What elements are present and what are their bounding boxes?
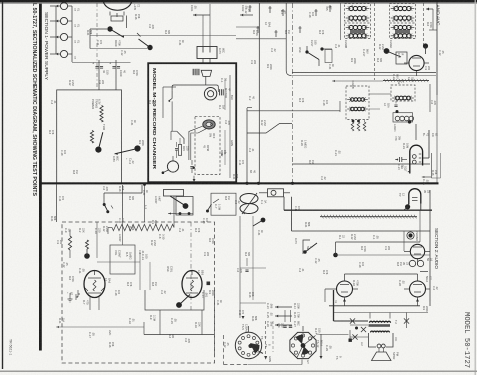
audio output tube V2 [410, 244, 424, 258]
wire b+ vertical riser [246, 108, 248, 183]
label socket X2 [316, 340, 320, 348]
wire jog to filter [247, 107, 252, 109]
capacitor C-30 [245, 269, 248, 271]
label agc cluster [149, 315, 153, 320]
rectifier pilot circle V100d [60, 50, 67, 57]
wire pilot bus [71, 6, 73, 62]
label bottom middle [256, 352, 260, 356]
ac interlock plug P100 [197, 47, 217, 59]
section 3 label fragment: and avc [435, 5, 440, 26]
wire gang to socket verticals [239, 216, 241, 318]
page footer model 50-1727 [462, 312, 470, 368]
rf amp labels row [64, 228, 68, 233]
power switch SW100 [107, 26, 112, 31]
wire tone network [350, 324, 368, 326]
grid dot V1B [176, 302, 182, 308]
detector diode arrow [427, 8, 429, 11]
audio driver tube V3 [337, 281, 353, 297]
plate dot V200 [423, 43, 428, 48]
output tube V4 [410, 281, 426, 297]
wire ac line arrows [193, 14, 210, 16]
1st IF shield box [396, 52, 407, 64]
wire tuner internals [122, 218, 124, 245]
wire output bus 2 [334, 312, 428, 314]
ground symbols bottom left [69, 293, 71, 299]
tuning gang capacitor C1A [240, 194, 258, 204]
wire screen bus [292, 163, 430, 165]
changer motor switch SW150 [167, 161, 178, 172]
wire avc return [56, 326, 144, 328]
wire to audio tube [415, 124, 417, 140]
label V1B [166, 266, 170, 272]
dashed extension to sockets [214, 290, 216, 355]
label 12SQ7 [400, 166, 404, 169]
output transformer T2 primary [370, 321, 391, 323]
muting switch SW3 [103, 193, 105, 204]
oscillator coil L202B adjustment circles [395, 116, 400, 121]
screen bypass square [207, 282, 211, 286]
wire avc bus 2 [292, 72, 436, 74]
label T2 [394, 320, 398, 324]
socket box under V101 [111, 16, 123, 21]
tone switch SW4 [207, 204, 212, 212]
wire plug leads to changer [202, 59, 204, 64]
junction dots on divider [245, 182, 248, 185]
record changer title [151, 68, 157, 170]
changer capacitor C151 [175, 148, 178, 150]
tone capacitor X marks [350, 318, 355, 323]
wire long horizontal feed [90, 35, 236, 37]
tuning gang capacitor C1B [240, 204, 258, 214]
band switch SW200 [306, 46, 308, 52]
label socket X1 [241, 324, 245, 330]
wire output stage heavy [333, 290, 335, 321]
section 2 label: audio [434, 228, 439, 270]
grid cap dot V200 [384, 48, 390, 54]
wire T2 to bus [369, 313, 371, 319]
socket X2 stem [302, 326, 304, 331]
capacitor C220 grid coupling [395, 159, 398, 161]
wire IF strip verticals [374, 3, 376, 80]
wire below dashed box [193, 176, 195, 180]
switch SW102 [134, 145, 140, 151]
wire speaker leads [378, 348, 380, 353]
wire jog 45deg [247, 124, 292, 134]
phono crystal cartridge [201, 70, 211, 76]
misc annotation specks [244, 8, 247, 14]
transformer T100 secondary [90, 131, 93, 144]
grid cap dot V1 [84, 253, 90, 259]
label speaker [392, 352, 396, 359]
loop antenna winding [112, 224, 174, 230]
pickup coil (hatched oval) [203, 120, 215, 129]
power selector switch SW2 [303, 240, 310, 254]
label fuse [260, 200, 264, 205]
wire ac line vertical [202, 15, 204, 47]
pilot lamp circles [409, 260, 415, 266]
phono motor M100 [204, 88, 216, 100]
tube V101 envelope (cropped by page top) [104, 2, 132, 10]
grid resistor R3 [68, 236, 71, 250]
label loop [118, 234, 122, 242]
top strip tick stubs [249, 5, 251, 12]
page border top rule [0, 0, 477, 3]
wire vertical feeds above tuner box [56, 184, 58, 222]
filter capacitor C100 group [98, 60, 100, 90]
fuse interlock F1 [268, 189, 284, 197]
switch SW101 on transformer [95, 147, 101, 153]
wire pilot common vertical [55, 6, 57, 54]
hatched avc bus segment [383, 80, 429, 82]
oscillator pointer [170, 196, 185, 205]
wire mains heavy [284, 209, 432, 211]
rectifier tube V202 dome below divider [409, 189, 421, 205]
black terminal blob [349, 339, 352, 342]
tube socket X1 (bottom view) [235, 332, 261, 358]
speaker LS1 cone [372, 352, 392, 361]
label V201 values [402, 143, 406, 149]
label R100 [114, 40, 118, 47]
wire dashdot mixer column [190, 222, 192, 310]
converter tube V1B (oval) [182, 271, 202, 298]
rectifier pilot circle V100c [60, 33, 67, 40]
label cluster 117V line [190, 5, 194, 12]
socket X2 pointer lines [303, 336, 316, 346]
label 117V [294, 238, 298, 244]
changer capacitor C152 [190, 166, 193, 168]
cathode arrows [343, 299, 346, 302]
drawing number TR-5621-1 [8, 339, 12, 355]
converter tube V200 [409, 55, 424, 70]
wire plate feed [429, 29, 437, 31]
crystal element stripes [192, 69, 194, 75]
wire changer internal [163, 86, 176, 88]
transformer T100 primary winding [100, 106, 103, 123]
label V200 pins [392, 74, 396, 80]
wire section2 right verticals [429, 190, 431, 306]
IF transformer T201 [390, 4, 416, 22]
rectifier pilot circle V100a [60, 2, 67, 9]
title text: model 50-1727 sectionalized schematic diagram [31, 3, 37, 196]
tube shield box V1B [145, 290, 204, 310]
interstage ladder wires [139, 252, 141, 290]
page border left rule [2, 2, 3, 369]
audio coupling labels [394, 136, 398, 141]
wire filament bus [292, 230, 431, 232]
power transformer box T100 [57, 90, 122, 183]
dashed test point leaders [265, 321, 267, 356]
wire top interconnect [104, 192, 142, 194]
cathode marks [66, 292, 69, 294]
wire switch out [333, 253, 338, 258]
wire avc bus [291, 75, 436, 77]
rectifier pilot circle V100b [60, 17, 67, 24]
IF transformer T203 with slug [390, 23, 416, 39]
phono jack J1 [408, 233, 412, 237]
changer resistor R151 [178, 145, 181, 156]
wire V1 pins down [89, 297, 91, 310]
oscillator sub box [176, 197, 193, 216]
wire V101 anode [126, 16, 128, 29]
bottom clutter labels [314, 328, 318, 334]
wire agc line [144, 334, 214, 336]
gang capacitor shaft arrow [242, 193, 257, 214]
wire heater dashdot [96, 3, 98, 89]
wire plate feed V201 [428, 130, 430, 158]
label on-off switch [209, 133, 213, 137]
grid resistors triple [351, 122, 354, 131]
wire switch feed [90, 28, 107, 30]
wire left tone lead [349, 330, 351, 340]
capacitor osc [394, 104, 397, 106]
T2 secondary loops [377, 344, 381, 348]
IF transformer T204 (second pair) [346, 86, 369, 120]
wire screen right box [430, 153, 432, 178]
title separator heavy vertical bar [39, 4, 42, 351]
label V4 [425, 276, 429, 282]
tube socket X2 (octal, bottom view) [290, 332, 316, 358]
IF transformer T202 with slug [345, 23, 371, 39]
IF transformer T205 [391, 85, 415, 101]
1st audio tube V201 (dome envelope) [410, 145, 423, 173]
IF transformer T200 (dashed can, two windings) [345, 4, 371, 22]
wire tube tops [345, 273, 418, 275]
label V2 [426, 258, 430, 261]
tuner dashed alignment box [62, 222, 215, 363]
label cluster pilot values [73, 8, 77, 11]
record changer enclosure box [148, 63, 236, 182]
wire tone arm loop [172, 85, 218, 91]
wire dashed return bottom [248, 364, 302, 366]
socket X1 stem [248, 326, 250, 332]
wire osc section [339, 101, 341, 112]
wire socket to output [320, 335, 322, 357]
page bottom edge rule [0, 370, 477, 372]
label V1 12B6 [78, 268, 82, 274]
label middle cluster [300, 140, 304, 146]
capacitor stack near X2 [283, 325, 286, 327]
section divider heavy rule [40, 182, 439, 184]
label loop ant [154, 196, 158, 204]
oscillator trimmer box [164, 190, 184, 197]
wire cathode arrow lead [422, 176, 431, 178]
label C-217 [362, 49, 366, 57]
label V3 [352, 280, 356, 286]
label fuse [125, 158, 128, 160]
section 1 label: power supply [44, 12, 49, 80]
wire B+ distribution [247, 110, 340, 112]
volume control box [110, 245, 135, 274]
changer switch assembly dashed box [195, 116, 220, 174]
coupling capacitor ladder arrows [275, 306, 292, 308]
tube shield box V1 [60, 290, 120, 310]
wire IF interstage [258, 3, 260, 183]
label +245 [133, 4, 137, 11]
wire osc bottom arrows [176, 213, 193, 215]
loop antenna return [107, 228, 109, 235]
wire vertical dashdot main [292, 3, 294, 182]
output transformer T2 frame [369, 333, 394, 347]
label IF frequencies [325, 6, 329, 11]
antenna coupling box [211, 193, 236, 215]
ground braid hatched bus [320, 216, 417, 218]
motor strain relief stripes [219, 89, 221, 95]
wire coil leads [189, 126, 203, 160]
rf amp tube V1 (oval) [84, 271, 105, 298]
page right edge shadow [474, 0, 476, 375]
wire cartridge lead [205, 76, 207, 85]
schematic right boundary wire [436, 2, 438, 95]
